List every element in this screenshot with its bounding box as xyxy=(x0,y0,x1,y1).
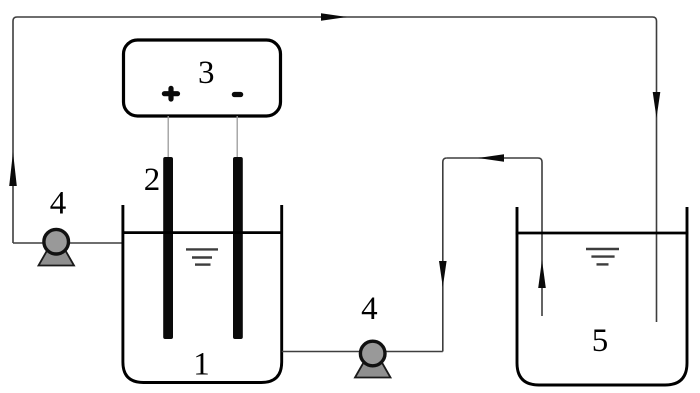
wire: right downcomer into tank 5 xyxy=(653,17,657,322)
svg-text:3: 3 xyxy=(198,55,215,91)
pump 4 (left) xyxy=(39,229,75,265)
wire: crossover header xyxy=(447,157,538,159)
pump 4 (bottom) xyxy=(355,341,391,377)
svg-text:2: 2 xyxy=(144,162,161,198)
wire: suction pipe down into tank 5 xyxy=(538,158,542,316)
wire: pump 4 discharge line into tank 1 xyxy=(13,242,123,244)
lead wire from - terminal to cathode xyxy=(236,116,238,158)
wire: left riser from pump 4 up to top header xyxy=(13,17,17,243)
water line tank 5 xyxy=(516,232,689,235)
flow arrow (right) on top header xyxy=(321,13,347,20)
wire: top header pipe xyxy=(17,16,653,18)
flow arrow (down) on riser to pump xyxy=(439,261,447,287)
lead wire from + terminal to anode xyxy=(167,116,169,158)
electrode (cathode bar) xyxy=(233,157,243,339)
svg-text:5: 5 xyxy=(592,323,609,359)
minus terminal mark xyxy=(234,92,240,97)
flow arrow (left) on crossover header xyxy=(478,154,504,162)
water surface mark tank 5 xyxy=(586,249,619,264)
svg-text:1: 1 xyxy=(193,347,210,383)
tank 1 (beaker, open top, rounded bottom) xyxy=(123,205,282,383)
water line tank 1 xyxy=(122,231,283,234)
water surface mark tank 1 xyxy=(186,249,218,264)
electrode 2 (anode bar) xyxy=(163,157,173,339)
power supply 3 xyxy=(124,40,281,116)
wire: tank 1 outlet to bottom pump xyxy=(282,351,443,353)
plus terminal mark xyxy=(164,88,177,99)
tank 5 (beaker, open top, rounded bottom) xyxy=(517,207,687,385)
svg-text:4: 4 xyxy=(50,186,67,222)
wire: riser from bottom pump corner xyxy=(443,158,447,352)
flow arrow (up) in suction pipe xyxy=(538,260,546,288)
flow arrow (down) on right downcomer xyxy=(653,92,661,118)
svg-text:4: 4 xyxy=(361,291,378,327)
flow arrow (up) on left riser xyxy=(9,152,17,186)
